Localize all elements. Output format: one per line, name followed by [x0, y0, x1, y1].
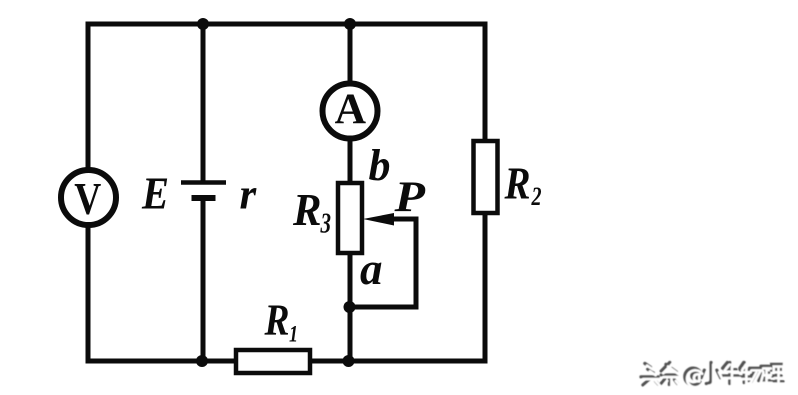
svg-text:1: 1 — [289, 322, 298, 347]
svg-text:r: r — [240, 172, 258, 219]
svg-text:R: R — [292, 184, 321, 235]
svg-text:2: 2 — [531, 182, 542, 211]
svg-text:A: A — [335, 85, 367, 133]
svg-text:P: P — [393, 174, 425, 221]
svg-text:3: 3 — [320, 208, 331, 240]
svg-text:R: R — [504, 158, 531, 209]
svg-text:E: E — [141, 168, 169, 219]
svg-text:V: V — [74, 174, 101, 224]
svg-text:a: a — [360, 244, 383, 294]
svg-text:b: b — [369, 141, 391, 190]
svg-text:R: R — [264, 296, 290, 345]
